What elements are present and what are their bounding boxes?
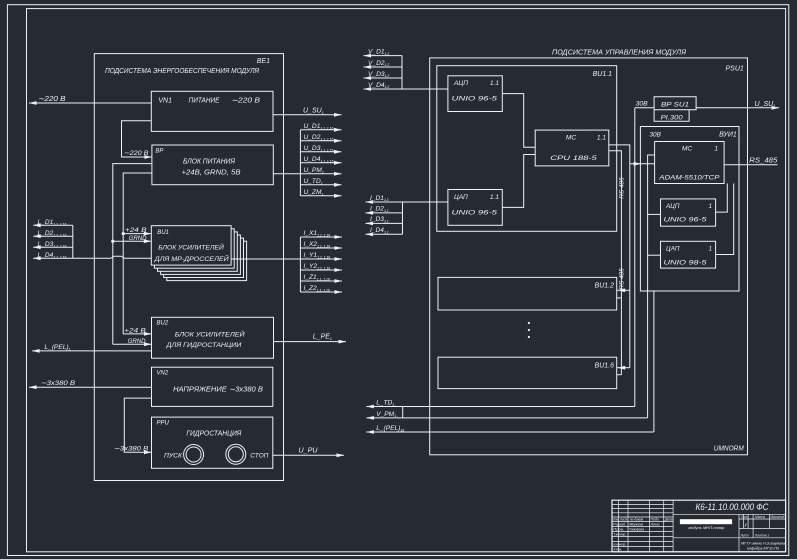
- svg-text:VN2: VN2: [157, 371, 169, 377]
- svg-text:+24 В: +24 В: [125, 227, 147, 234]
- svg-text:GRND: GRND: [129, 235, 147, 242]
- button СТОП circle: [226, 444, 246, 464]
- arrow U_PM: [334, 172, 342, 176]
- svg-text:Изм. Лист: Изм. Лист: [613, 518, 627, 522]
- wire U_D3: [300, 151, 341, 153]
- wire DAC right to MC: [716, 184, 734, 255]
- svg-text:Пров.: Пров.: [613, 528, 624, 532]
- arrow U_D1: [334, 128, 342, 132]
- arrow I_Z1: [335, 279, 343, 283]
- redacted name bar: [680, 519, 732, 524]
- svg-text:Н.контр.: Н.контр.: [613, 543, 626, 547]
- svg-text:Лист: Лист: [740, 534, 749, 538]
- wire BU1.2 stub arrow: [617, 289, 630, 291]
- wire +24V into BU1: [123, 233, 151, 235]
- wire BU1.2 stub rs485: [617, 297, 622, 299]
- arrow GRND BU1: [144, 239, 152, 243]
- wire V_D1: [364, 55, 402, 57]
- svg-text:∼3х380 В: ∼3х380 В: [113, 445, 149, 452]
- svg-text:Дата: Дата: [664, 518, 673, 522]
- svg-text:1.1: 1.1: [597, 134, 606, 141]
- wire VN1 to BP 220V: [122, 121, 152, 157]
- block BU1.1: [437, 66, 617, 232]
- wire DAC to MC: [502, 155, 535, 208]
- wire bus v2 down: [629, 164, 631, 368]
- arrow U_PU: [337, 453, 345, 457]
- title block frame: [612, 500, 786, 552]
- ellipsis dots between BU1.2 and BU1.6: [528, 322, 530, 324]
- arrow V_D1: [364, 54, 372, 58]
- wire I_D4: [366, 233, 403, 235]
- block VUI1: [640, 127, 739, 292]
- junction GRND BU1: [111, 240, 114, 243]
- svg-text:∼220 В: ∼220 В: [38, 96, 66, 103]
- arrow I_Z2: [335, 290, 343, 294]
- arrow I_D3: [366, 222, 374, 226]
- svg-text:∼220 В: ∼220 В: [231, 98, 260, 105]
- svg-text:МС: МС: [566, 134, 576, 141]
- arrow into BU1.6: [618, 366, 626, 370]
- arrow L(PEL): [32, 349, 40, 353]
- node U_D group connector: [299, 130, 301, 196]
- block DAC UNIO96 1.1: [448, 190, 502, 226]
- svg-text:Т.контр.: Т.контр.: [613, 533, 626, 537]
- wire 30V into BPSU1: [635, 107, 654, 109]
- arrow U_D2: [334, 139, 342, 143]
- svg-text:U_SU1: U_SU1: [755, 101, 776, 108]
- wire I_X2: [300, 247, 342, 249]
- svg-text:UNIO 96-5: UNIO 96-5: [452, 209, 498, 216]
- wire V_D3: [364, 77, 402, 79]
- block BP power supply: [152, 145, 273, 185]
- block BU1.6: [438, 357, 617, 388]
- svg-text:BU2: BU2: [157, 321, 169, 327]
- svg-text:ЦАП: ЦАП: [454, 194, 468, 201]
- svg-text:30В: 30В: [650, 132, 662, 139]
- title block small texts: [613, 515, 786, 552]
- arrow V_D4: [364, 87, 372, 91]
- wire ADC right to MC: [716, 184, 728, 213]
- arrow L(PEL) psu: [366, 430, 374, 434]
- arrow U_SU1: [772, 106, 780, 110]
- wire U_PM: [300, 173, 341, 175]
- wire RS_485 out: [724, 164, 778, 166]
- svg-text:Масса: Масса: [755, 515, 765, 519]
- svg-text:∼3х380 В: ∼3х380 В: [40, 380, 76, 387]
- svg-text:Лично: Лично: [650, 523, 660, 527]
- wire V_D4 into ADC: [364, 88, 448, 90]
- wire BU1.6 stub rs485: [617, 374, 622, 376]
- svg-text:L_PE1: L_PE1: [313, 334, 332, 341]
- block VN2 voltage: [152, 367, 273, 406]
- wire I_D1 into DAC: [366, 201, 448, 203]
- svg-text:+24 В: +24 В: [124, 328, 146, 335]
- block BU1.2: [438, 277, 617, 310]
- svg-text:UNIO 98-5: UNIO 98-5: [664, 259, 707, 266]
- wire CPU to ADAM: [609, 145, 655, 164]
- svg-text:1: 1: [714, 146, 718, 153]
- wire L_PE out: [274, 341, 347, 343]
- svg-text:НАПРЯЖЕНИЕ ∼3х380 В: НАПРЯЖЕНИЕ ∼3х380 В: [173, 386, 263, 393]
- arrow 220V into BP: [144, 155, 152, 159]
- svg-text:К6-11.10.00.000 ФС: К6-11.10.00.000 ФС: [696, 502, 770, 512]
- svg-text:БЛОК УСИЛИТЕЛЕЙ: БЛОК УСИЛИТЕЛЕЙ: [175, 329, 245, 338]
- svg-text:АЦП: АЦП: [453, 80, 468, 87]
- svg-text:Лит.: Лит.: [740, 515, 748, 519]
- wire U_D4: [300, 162, 341, 164]
- arrow V_D3: [364, 76, 372, 80]
- arrow L_TD: [366, 405, 374, 409]
- wire U_ZM: [300, 195, 341, 197]
- svg-text:Тимофеев: Тимофеев: [629, 528, 644, 532]
- arrow I_Y2: [335, 268, 343, 272]
- svg-text:RS 485: RS 485: [619, 177, 626, 199]
- wire I_D2: [366, 212, 403, 214]
- svg-text:RS_485: RS_485: [749, 157, 777, 164]
- arrow ~3x380 left: [29, 385, 37, 389]
- arrow ~220V left: [29, 101, 37, 105]
- node I_X group connector: [299, 237, 301, 292]
- svg-text:BU1.1: BU1.1: [593, 71, 613, 78]
- svg-text:U_PU: U_PU: [299, 447, 319, 454]
- wire BP to U_D group: [273, 173, 300, 175]
- arrow I_D1: [366, 200, 374, 204]
- arrow U_SU: [334, 113, 342, 117]
- arrow L_D1: [33, 223, 41, 227]
- wire U_D1: [300, 129, 341, 131]
- block MC CPU 188-5: [535, 130, 609, 166]
- wire GRND into BU2: [113, 343, 152, 345]
- subsystem box BE1: [94, 54, 283, 481]
- svg-text:BU1.2: BU1.2: [595, 283, 615, 290]
- wire I_Y1: [300, 258, 342, 260]
- arrow V_PM: [366, 416, 374, 420]
- node TD-PM bracket: [402, 407, 404, 418]
- arrow into BU1.2: [618, 288, 626, 292]
- block ADC UNIO96 1.1: [448, 76, 502, 112]
- svg-text:модуль МНП-поляр: модуль МНП-поляр: [688, 526, 724, 530]
- button ПУСК circle: [184, 445, 204, 465]
- svg-text:ПОДСИСТЕМА ЭНЕРГООБЕСПЕЧЕНИЯ: ПОДСИСТЕМА ЭНЕРГООБЕСПЕЧЕНИЯ МОДУЛЯ: [105, 68, 259, 75]
- wire +24V into BU2: [123, 333, 151, 335]
- arrow +24V BU1: [144, 232, 152, 236]
- arrow I_Y1: [335, 257, 343, 261]
- svg-text:Масштаб: Масштаб: [771, 515, 785, 519]
- wire L_D2: [33, 235, 73, 237]
- svg-text:СТОП: СТОП: [250, 453, 269, 460]
- svg-text:Листов 1: Листов 1: [754, 534, 769, 538]
- svg-text:ВУИ1: ВУИ1: [719, 132, 737, 139]
- svg-text:1.1: 1.1: [490, 194, 499, 201]
- svg-text:кафедра МТ11-П3: кафедра МТ11-П3: [747, 546, 780, 551]
- svg-text:Утв.: Утв.: [613, 548, 622, 552]
- arrow U_D3: [334, 150, 342, 154]
- svg-text:30В: 30В: [636, 100, 648, 107]
- block DAC UNIO VUI1: [661, 241, 716, 268]
- wire U_SU out: [273, 114, 342, 116]
- wire I_Z1: [300, 280, 342, 282]
- wire CPU to RS485 bus: [609, 151, 622, 375]
- arrow L_PE: [339, 340, 347, 344]
- wire GRND bus: [113, 164, 152, 345]
- svg-text:АЦП: АЦП: [665, 203, 680, 210]
- wire L_TD: [366, 406, 634, 408]
- title block left section grid: [612, 500, 673, 552]
- svg-text:U_TD1: U_TD1: [304, 178, 323, 185]
- svg-text:U_SU1: U_SU1: [303, 108, 324, 115]
- wire v4 tap ADC: [648, 213, 661, 215]
- svg-text:БЛОК УСИЛИТЕЛЕЙ: БЛОК УСИЛИТЕЛЕЙ: [158, 243, 224, 252]
- arrow U_ZM: [334, 194, 342, 198]
- svg-text:ПУСК: ПУСК: [164, 453, 182, 460]
- arrow U_TD: [334, 183, 342, 187]
- svg-text:ДЛЯ МР-ДРОССЕЛЕЙ: ДЛЯ МР-ДРОССЕЛЕЙ: [154, 254, 229, 263]
- arrow I_D4: [366, 232, 374, 236]
- svg-text:PSU1: PSU1: [726, 66, 744, 73]
- wire BU1 to I_X group: [231, 258, 300, 260]
- svg-text:ПОДСИСТЕМА УПРАВЛЕНИЯ МОДУЛЯ: ПОДСИСТЕМА УПРАВЛЕНИЯ МОДУЛЯ: [552, 49, 686, 56]
- svg-text:ГИДРОСТАНЦИЯ: ГИДРОСТАНЦИЯ: [186, 431, 241, 438]
- wire I_Z2: [300, 291, 342, 293]
- wire V_D2: [364, 66, 402, 68]
- wire V_PM: [366, 417, 647, 419]
- svg-text:VN1: VN1: [158, 98, 172, 105]
- wire I_D3: [366, 222, 403, 224]
- svg-text:ADAM-5510/TCP: ADAM-5510/TCP: [658, 174, 720, 181]
- block MC ADAM: [655, 142, 725, 184]
- wire U_TD: [300, 184, 341, 186]
- wire L_D4 with hops: [33, 256, 151, 258]
- svg-text:U_PM1: U_PM1: [304, 167, 324, 174]
- svg-text:Подп.: Подп.: [651, 518, 660, 522]
- block BU1 amplifier stack echoes: [167, 241, 247, 280]
- block BP SU1 / PI 300: [654, 97, 696, 122]
- wire ~3x380 left: [29, 386, 152, 388]
- wire U_SU1 out: [696, 107, 779, 109]
- svg-text:BE1: BE1: [257, 58, 270, 65]
- arrow I_D2: [366, 211, 374, 215]
- wire L(PEL) left: [32, 350, 151, 352]
- wire MC left to v4: [648, 155, 655, 418]
- svg-text:BP: BP: [155, 148, 163, 154]
- svg-text:PPU: PPU: [157, 420, 170, 426]
- svg-text:1.1: 1.1: [490, 80, 499, 87]
- wire v5 L(PEL): [653, 291, 655, 432]
- arrow V_D2: [364, 65, 372, 69]
- block VN1 power: [151, 91, 273, 131]
- block BU1 amplifiers for MP chokes: [151, 226, 231, 265]
- svg-text:∼220 В: ∼220 В: [124, 150, 150, 157]
- arrow L_D4: [33, 256, 41, 260]
- wire +24V bus: [123, 173, 152, 334]
- svg-text:Жуков: Жуков: [628, 523, 644, 527]
- wire BU1.6 stub arrow: [617, 367, 630, 369]
- svg-text:ЦАП: ЦАП: [666, 246, 680, 253]
- subsystem box PSU1: [430, 58, 748, 455]
- title block middle and right dividers: [673, 514, 786, 552]
- svg-text:№ докум.: № докум.: [630, 518, 644, 522]
- svg-text:1: 1: [708, 203, 712, 210]
- wire v4 tap DAC: [648, 254, 661, 256]
- junction +24V BU1: [122, 232, 125, 235]
- wire 30V bus v3: [634, 108, 636, 407]
- block PPU hydro station: [152, 417, 273, 468]
- svg-text:Разраб.: Разраб.: [613, 523, 626, 527]
- svg-text:UNIO 96-5: UNIO 96-5: [664, 217, 707, 224]
- svg-text:CPU 188-5: CPU 188-5: [550, 155, 597, 162]
- svg-text:L_(PEL)1: L_(PEL)1: [44, 344, 70, 351]
- svg-text:1: 1: [708, 246, 712, 253]
- arrow 3x380 into PPU: [144, 450, 152, 454]
- wire I_X1: [300, 236, 342, 238]
- block BU2 amplifiers hydro: [152, 317, 274, 358]
- node I_D connector: [402, 202, 404, 234]
- svg-text:ПИТАНИЕ: ПИТАНИЕ: [189, 98, 220, 105]
- svg-text:PI.300: PI.300: [661, 114, 684, 121]
- arrow I_X1: [335, 235, 343, 239]
- svg-text:БЛОК ПИТАНИЯ: БЛОК ПИТАНИЯ: [183, 159, 235, 166]
- wire L_D3: [33, 246, 73, 248]
- wire VN2 to PPU: [124, 398, 151, 452]
- arrow L_D3: [33, 245, 41, 249]
- wire ~220V to left: [29, 102, 151, 104]
- svg-text:BU1: BU1: [157, 230, 169, 236]
- arrow GRND BU2: [144, 342, 152, 346]
- wire GRND into BU1: [113, 240, 152, 242]
- svg-text:UMNORM: UMNORM: [714, 446, 744, 453]
- wire L_D1: [33, 224, 73, 226]
- svg-text:GRND: GRND: [128, 338, 146, 345]
- arrow U_D4: [334, 161, 342, 165]
- arrow L_D2: [33, 234, 41, 238]
- svg-text:UNIO 96-5: UNIO 96-5: [452, 96, 498, 103]
- wire I_Y2: [300, 269, 342, 271]
- svg-text:RS 485: RS 485: [619, 268, 626, 290]
- wire ADC to MC: [502, 94, 535, 148]
- node L_D group connector: [72, 225, 74, 258]
- arrow +24V BU2: [144, 332, 152, 336]
- wire U_D2: [300, 140, 341, 142]
- wire U_PU out: [273, 454, 344, 456]
- node V_D connector: [401, 56, 403, 89]
- wire L(PEL) psu: [366, 431, 654, 433]
- svg-text:МС: МС: [682, 146, 692, 153]
- block ADC UNIO VUI1: [661, 199, 716, 226]
- svg-text:+24В, GRND, 5В: +24В, GRND, 5В: [182, 170, 241, 177]
- svg-text:U_ZM1: U_ZM1: [304, 189, 324, 196]
- arrow I_X2: [335, 246, 343, 250]
- arrow into ADAM MC: [634, 162, 642, 166]
- svg-text:BP SU1: BP SU1: [661, 101, 689, 108]
- svg-text:ДЛЯ ГИДРОСТАНЦИИ: ДЛЯ ГИДРОСТАНЦИИ: [165, 342, 241, 349]
- svg-text:BU1.6: BU1.6: [595, 362, 615, 369]
